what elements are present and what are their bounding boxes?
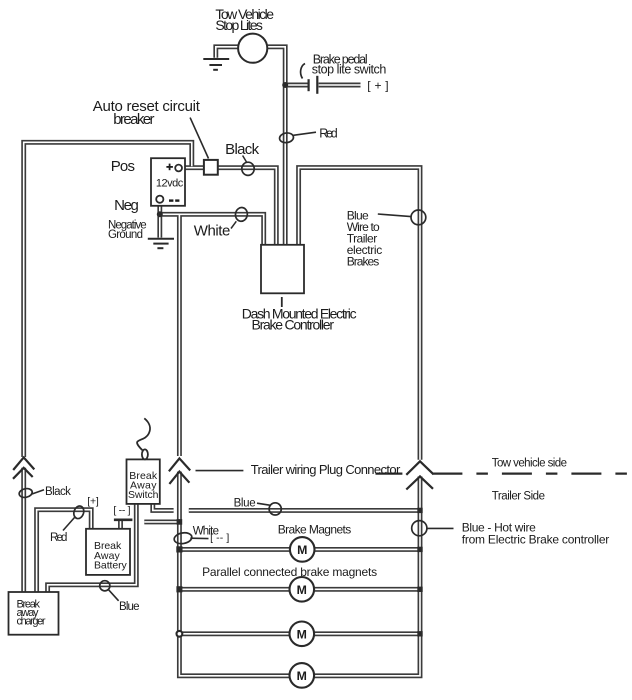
- wire magnet row 3: [179, 631, 420, 636]
- wire marker: White (top): [231, 207, 248, 229]
- motor M4 brake magnet: [290, 663, 315, 688]
- battery B1 12vdc: [151, 158, 185, 206]
- svg-text:M: M: [297, 543, 307, 557]
- wire lamp right lead down to controller (Red wire): [267, 47, 285, 245]
- connector chevrons: middle rail plug: [169, 458, 190, 484]
- svg-text:Battery: Battery: [94, 559, 128, 571]
- svg-text:Black: Black: [225, 141, 260, 158]
- svg-text:Trailer Side: Trailer Side: [492, 490, 545, 502]
- connector chevrons: left rail plug: [13, 457, 34, 478]
- svg-text:Red: Red: [50, 532, 67, 544]
- svg-text:Brakes: Brakes: [347, 255, 380, 269]
- breakaway switch SW2 box: [127, 459, 160, 504]
- wire breakaway switch to charger (blue loop): [48, 504, 137, 592]
- wire white inner cores (repeat of all wire paths to render hollow double-line style): [24, 47, 420, 676]
- wire controller to right rail (Blue wire to trailer brakes): [299, 168, 420, 460]
- wire battery neg stem down to ground: [157, 203, 162, 238]
- svg-text:[ + ]: [ + ]: [367, 79, 388, 93]
- node junction battery neg / white: [157, 211, 163, 217]
- svg-text:charger: charger: [17, 616, 46, 628]
- wire from switch bar2 to [+]: [319, 83, 361, 88]
- switch SW1 brake pedal stop lite switch: [301, 64, 318, 94]
- svg-text:Red: Red: [319, 126, 338, 140]
- svg-text:from Electric Brake controller: from Electric Brake controller: [462, 533, 610, 547]
- ground (tow vehicle stop lites): [203, 59, 229, 70]
- breakaway charger box: [9, 592, 59, 635]
- svg-text:Ground: Ground: [108, 229, 143, 241]
- wire breakaway neg connector lead to middle rail: [144, 519, 179, 524]
- svg-text:Brake Controller: Brake Controller: [252, 317, 335, 333]
- wire red loop: charger to breakaway battery +: [37, 510, 92, 592]
- label + (battery): [166, 164, 173, 171]
- wire marker: Red (breakaway): [63, 505, 85, 531]
- motor M2 brake magnet: [290, 577, 315, 602]
- wire magnet row 1: [179, 547, 420, 552]
- wire marker: Black (left rail): [18, 487, 44, 498]
- wire marker: Blue (charger loop): [100, 581, 119, 601]
- wire middle rail lower + bottom row + right rail lower: [179, 472, 420, 676]
- wire marker: Red (top): [279, 132, 316, 143]
- wire marker: White neg (rail): [173, 531, 208, 545]
- controller U1 dash mounted electric brake controller: [261, 245, 304, 293]
- wire middle rail upper (white run down to plug connector): [177, 214, 182, 456]
- svg-text:Trailer wiring Plug Connector: Trailer wiring Plug Connector: [251, 462, 401, 477]
- wire marker: Black (top): [242, 156, 254, 176]
- wire marker: Blue hot wire (right rail): [412, 521, 454, 536]
- svg-text:Blue: Blue: [119, 601, 140, 613]
- svg-text:Stop Lites: Stop Lites: [215, 17, 263, 33]
- circuit breaker CB1 (auto reset): [204, 160, 218, 175]
- svg-text:stop lite switch: stop lite switch: [312, 62, 387, 76]
- motor M3 brake magnet: [290, 622, 315, 647]
- node junction right rail / magnet row 1: [417, 547, 422, 552]
- node junction left rail / breakaway connector wire: [177, 519, 183, 525]
- svg-text:M: M: [297, 669, 307, 683]
- T-connector bar (battery neg half): [114, 518, 132, 521]
- breakaway battery B2 box: [86, 529, 130, 575]
- svg-text:breaker: breaker: [113, 111, 154, 128]
- wire magnet row 2: [179, 587, 420, 592]
- svg-text:Tow vehicle side: Tow vehicle side: [492, 458, 567, 470]
- svg-text:Blue: Blue: [234, 498, 256, 510]
- dashed divider tow vehicle / trailer side: [376, 473, 403, 475]
- svg-text:[ -- ]: [ -- ]: [113, 505, 130, 517]
- pointer tick below controller: [281, 297, 283, 307]
- svg-text:Black: Black: [45, 486, 71, 498]
- wire breaker to controller (Black): [218, 168, 276, 245]
- svg-text:[+]: [+]: [87, 495, 99, 507]
- node junction left rail / magnet row 2: [176, 586, 182, 592]
- wire left rail lower into charger: [21, 468, 26, 592]
- svg-text:Switch: Switch: [128, 489, 159, 501]
- battery neg terminal: [156, 196, 163, 203]
- connector chevrons: right rail plug: [406, 461, 433, 489]
- node junction left rail / magnet row 1: [176, 546, 182, 552]
- svg-text:Neg: Neg: [114, 197, 139, 214]
- wire battery plus to breaker: [182, 165, 204, 170]
- node junction right rail / blue feed row: [417, 508, 422, 513]
- battery plus terminal: [175, 165, 182, 172]
- svg-text:White: White: [194, 223, 231, 240]
- svg-text:M: M: [297, 627, 307, 641]
- node junction right rail / magnet row 2: [417, 587, 422, 592]
- wire white: neg junction to controller: [160, 214, 264, 244]
- junction ring row3 left: [177, 631, 183, 637]
- label minus dashes (battery): [169, 199, 179, 201]
- wire blue row to right rail: [189, 508, 420, 513]
- wire marker: Blue (row): [257, 503, 281, 515]
- svg-text:Pos: Pos: [111, 158, 135, 175]
- lamp L1 Tow Vehicle Stop Lites: [238, 34, 267, 63]
- wire marker: Blue wire to trailer brakes: [378, 210, 426, 225]
- squiggle lanyard above breakaway switch: [137, 418, 150, 450]
- svg-text:Brake Magnets: Brake Magnets: [278, 522, 352, 536]
- motor M1 brake magnet: [290, 537, 315, 562]
- node junction at stop-lite switch tap: [282, 82, 288, 88]
- wire switch stub to blue row (left of rail gap): [153, 504, 174, 511]
- wire left loop: left rail up, across top, down to battery + lead: [24, 142, 192, 457]
- wire junction to stoplite switch bar1: [285, 83, 307, 88]
- node junction right rail / magnet row 3: [417, 631, 422, 636]
- svg-text:M: M: [297, 583, 307, 597]
- svg-text:12vdc: 12vdc: [156, 178, 184, 190]
- pointer line: auto reset label to breaker: [190, 118, 208, 159]
- svg-text:[ -- ]: [ -- ]: [210, 532, 229, 544]
- svg-text:Parallel connected brake magne: Parallel connected brake magnets: [202, 565, 377, 579]
- wire lamp left lead + ground stem: [216, 47, 239, 58]
- pointer line to Trailer wiring Plug Connector label: [196, 470, 244, 472]
- ground (negative ground): [148, 239, 174, 248]
- T-connector stem: [118, 521, 123, 530]
